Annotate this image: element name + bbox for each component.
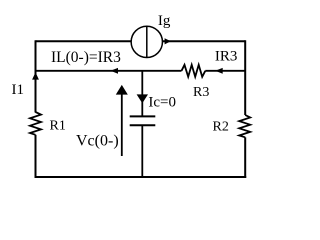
svg-text:Ic=0: Ic=0 <box>148 95 176 111</box>
svg-text:R1: R1 <box>50 118 66 133</box>
arrowhead IL left <box>111 68 119 74</box>
resistor R2 <box>239 115 250 137</box>
wire left rail <box>35 40 37 112</box>
wire top rail left segment <box>36 40 132 42</box>
arrowhead current source output <box>165 38 171 44</box>
arrowhead Vc up <box>116 85 128 95</box>
svg-text:Vc(0-): Vc(0-) <box>76 133 119 150</box>
wire middle horizontal right segment <box>205 70 245 72</box>
svg-text:IR3: IR3 <box>215 48 238 64</box>
svg-text:R2: R2 <box>213 119 229 134</box>
arrowhead I1 up <box>32 72 39 79</box>
arrowhead Ic down <box>137 94 148 103</box>
Vc reference arrow line <box>121 91 123 156</box>
svg-text:Ig: Ig <box>158 13 171 29</box>
wire capacitor branch top <box>141 71 143 117</box>
wire left rail bottom <box>35 135 37 178</box>
capacitor C bottom plate <box>130 124 156 126</box>
resistor R1 <box>30 112 41 135</box>
svg-text:R3: R3 <box>193 85 209 100</box>
capacitor C top plate <box>130 115 156 117</box>
svg-text:I1: I1 <box>12 82 25 98</box>
wire bottom rail <box>35 176 247 178</box>
wire capacitor branch bottom <box>141 125 143 178</box>
svg-text:IL(0-)=IR3: IL(0-)=IR3 <box>51 49 121 66</box>
arrowhead IR3 left <box>215 68 223 74</box>
wire top rail right segment <box>162 40 245 42</box>
wire right rail bottom <box>244 137 246 178</box>
wire middle horizontal left segment <box>36 70 182 72</box>
wire right rail top <box>244 40 246 115</box>
current source Ig <box>131 26 162 57</box>
resistor R3 <box>182 65 206 77</box>
